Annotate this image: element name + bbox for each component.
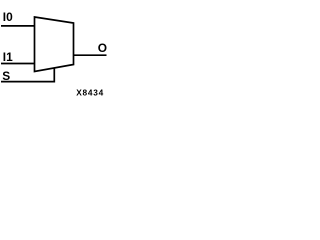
svg-text:S: S: [2, 69, 10, 83]
svg-text:I0: I0: [3, 10, 13, 24]
svg-text:O: O: [98, 41, 107, 55]
svg-text:I1: I1: [3, 50, 13, 64]
svg-text:X8434: X8434: [76, 88, 104, 98]
